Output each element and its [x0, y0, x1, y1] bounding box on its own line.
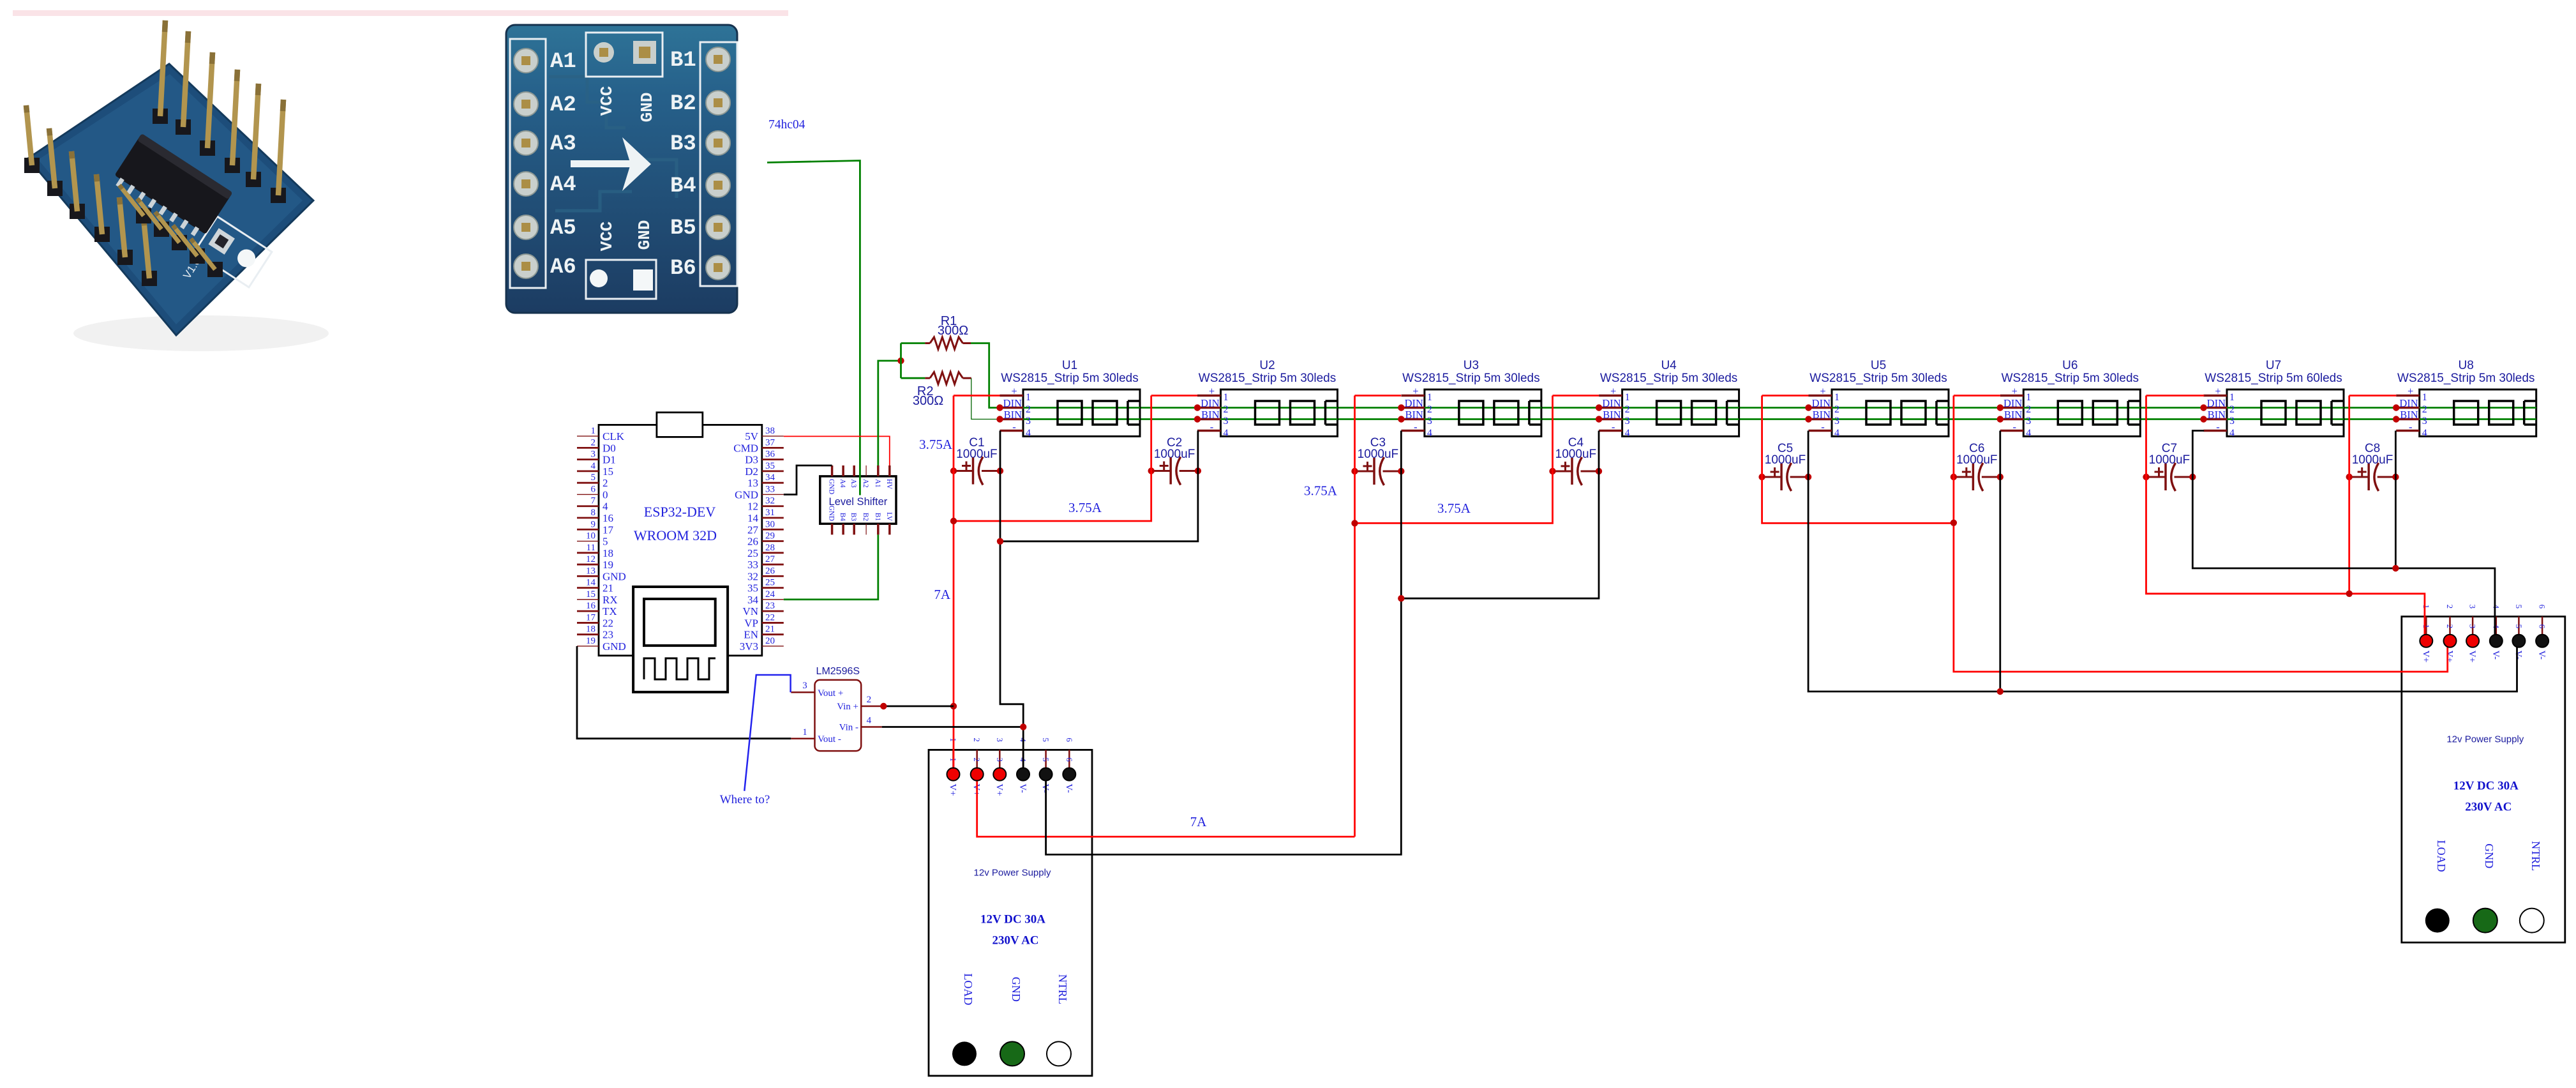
svg-text:32: 32: [765, 496, 775, 506]
svg-text:3: 3: [995, 737, 1005, 742]
svg-text:22: 22: [765, 612, 775, 623]
node U5 DIN: [1805, 404, 1811, 411]
U7 pin 4 stub: [2204, 430, 2228, 432]
terminal 1 stub: [952, 750, 954, 767]
level shifter top pin HV: [888, 465, 891, 476]
ESP32 left pin 16 (TX): [577, 610, 599, 612]
svg-text:WS2815_Strip 5m 30leds: WS2815_Strip 5m 30leds: [2002, 372, 2139, 385]
svg-text:4: 4: [2491, 605, 2501, 609]
svg-text:1000uF: 1000uF: [2149, 453, 2190, 467]
svg-text:23: 23: [603, 629, 613, 641]
svg-text:27: 27: [747, 524, 759, 536]
svg-text:36: 36: [765, 450, 775, 460]
svg-text:3: 3: [802, 681, 807, 691]
wire: +12V rail U1 (red, from PSU1 terminal1): [953, 396, 955, 768]
ESP32 right pin 36 (D3): [762, 458, 784, 460]
svg-text:DIN: DIN: [2399, 397, 2418, 409]
ESP32 right pin 34 (13): [762, 482, 784, 484]
ESP32 right pin 25 (35): [762, 587, 784, 589]
level shifter top pin A4: [842, 465, 844, 476]
svg-text:1000uF: 1000uF: [1555, 448, 1596, 461]
svg-text:4: 4: [2026, 428, 2031, 439]
svg-text:3: 3: [1625, 416, 1630, 427]
level shifter top pin GND: [831, 465, 834, 476]
ESP32 right pin 21 (EN): [762, 633, 784, 635]
svg-text:0: 0: [603, 488, 608, 501]
U6 pin 1 stub: [2000, 395, 2024, 397]
svg-text:U7: U7: [2266, 359, 2281, 372]
node U6 DIN: [1997, 404, 2003, 411]
svg-text:GND: GND: [2483, 843, 2496, 868]
svg-text:2: 2: [1224, 404, 1229, 415]
svg-text:2: 2: [2445, 605, 2455, 609]
wire: DIN bus (green): [1000, 407, 2536, 409]
svg-text:1: 1: [802, 727, 807, 737]
node C6+: [1951, 474, 1957, 480]
svg-text:13: 13: [747, 477, 758, 489]
svg-text:-: -: [2013, 421, 2017, 433]
node U5/U6 +12V: [1951, 520, 1957, 526]
terminal 5 stub: [2518, 617, 2520, 635]
ESP32 left pin 8 (16): [577, 517, 599, 519]
ESP32 left pin 13 (GND): [577, 575, 599, 577]
svg-text:1: 1: [591, 426, 596, 436]
svg-text:LM2596S: LM2596S: [816, 666, 860, 677]
U5 pin 1 stub: [1809, 395, 1832, 397]
svg-text:15: 15: [603, 465, 613, 478]
svg-text:38: 38: [765, 426, 775, 436]
node C2-: [1195, 467, 1201, 474]
level shifter bottom pin B1: [877, 524, 880, 534]
U7 pin 1 stub: [2204, 395, 2228, 397]
svg-text:V+: V+: [2445, 651, 2455, 663]
node U5 BIN: [1805, 416, 1811, 422]
svg-text:VCC: VCC: [597, 222, 617, 252]
svg-text:74hc04: 74hc04: [768, 118, 805, 132]
svg-text:6: 6: [591, 484, 596, 494]
ESP32 right pin 33 (GND): [762, 494, 784, 495]
U2 pin 3 stub: [1197, 418, 1221, 421]
ESP32 right pin 30 (27): [762, 529, 784, 531]
level shifter bottom pin B3: [853, 524, 855, 534]
svg-text:3: 3: [1427, 416, 1432, 427]
svg-text:VP: VP: [744, 617, 758, 629]
svg-text:A6: A6: [550, 255, 576, 280]
ESP32 left pin 15 (RX): [577, 599, 599, 600]
svg-text:16: 16: [603, 512, 613, 524]
U4 pin 3 stub: [1599, 418, 1622, 421]
svg-text:26: 26: [765, 566, 775, 576]
svg-text:BIN: BIN: [2400, 409, 2418, 421]
svg-text:30: 30: [765, 519, 775, 529]
capacitor C2 1000uF: [1148, 436, 1202, 485]
LM2596S pin 4 (Vin-): [861, 726, 882, 728]
svg-text:13: 13: [586, 566, 595, 576]
12v power supply PSU1: [929, 737, 1092, 1076]
svg-text:21: 21: [603, 582, 613, 594]
svg-text:B2: B2: [670, 92, 696, 116]
U8 pin 2 stub: [2396, 407, 2420, 409]
node U1 DIN: [996, 404, 1003, 411]
svg-text:LOAD: LOAD: [2435, 840, 2448, 872]
ESP32 left pin 5 (2): [577, 482, 599, 484]
svg-text:U1: U1: [1062, 359, 1077, 372]
U3 pin 4 stub: [1401, 430, 1425, 432]
terminal 1 stub: [2425, 617, 2427, 635]
svg-text:A2: A2: [862, 479, 869, 488]
svg-text:+: +: [1610, 385, 1616, 397]
terminal 6 stub: [1068, 750, 1070, 767]
ESP32 left pin 12 (19): [577, 564, 599, 566]
svg-text:2: 2: [603, 477, 608, 489]
svg-text:4: 4: [1427, 428, 1432, 439]
svg-text:DIN: DIN: [1602, 397, 1621, 409]
LED strip U5 (WS2815_Strip 5m 30leds): [1805, 359, 1949, 439]
node U2 DIN: [1194, 404, 1201, 411]
svg-text:5: 5: [1041, 757, 1051, 762]
capacitor C8 1000uF: [2346, 442, 2399, 491]
svg-text:ESP32-DEV: ESP32-DEV: [644, 504, 716, 520]
wire: U8 pin4 return (black): [2395, 431, 2397, 569]
wire: U1 pin4 return to PSU1 t4 (black): [1000, 431, 1023, 768]
ESP32 left pin 18 (23): [577, 633, 599, 635]
svg-text:CMD: CMD: [733, 442, 758, 454]
resistor R2 300ohm: [901, 372, 971, 408]
svg-text:Vin -: Vin -: [839, 723, 858, 733]
svg-text:5: 5: [1041, 737, 1051, 742]
node U3 BIN: [1398, 416, 1404, 422]
wire: U6 pin4 return (black): [1999, 431, 2001, 692]
svg-text:HV: HV: [885, 479, 893, 489]
svg-text:3.75A: 3.75A: [1437, 501, 1471, 516]
svg-text:6: 6: [1065, 737, 1074, 742]
svg-text:12V DC 30A: 12V DC 30A: [980, 912, 1045, 926]
svg-text:6: 6: [1065, 757, 1074, 762]
node U4 BIN: [1596, 416, 1602, 422]
svg-text:U8: U8: [2459, 359, 2474, 372]
svg-text:7A: 7A: [1190, 814, 1208, 829]
U5 pin 4 stub: [1809, 430, 1832, 432]
wire: ESP32 GND pin33 to level shifter GND (black): [784, 465, 832, 495]
node C1+: [950, 467, 957, 474]
svg-text:5: 5: [591, 472, 596, 483]
wire: branch to U2 pin1 (red): [954, 396, 1151, 522]
svg-text:DIN: DIN: [1201, 397, 1219, 409]
svg-text:V+: V+: [994, 783, 1004, 796]
ESP32 right pin 27 (33): [762, 564, 784, 566]
U7 pin 2 stub: [2204, 407, 2228, 409]
svg-text:8: 8: [591, 508, 596, 518]
svg-text:27: 27: [765, 554, 775, 564]
photo background pink band: [13, 10, 788, 16]
node U3 DIN: [1398, 404, 1404, 411]
svg-text:Vout -: Vout -: [818, 734, 841, 744]
svg-text:2: 2: [972, 757, 982, 762]
svg-text:CLK: CLK: [603, 430, 625, 442]
svg-text:12: 12: [747, 501, 758, 513]
ESP32 left pin 7 (4): [577, 505, 599, 507]
node U3/U4 +12V: [1351, 520, 1358, 526]
svg-text:GND: GND: [603, 570, 626, 582]
svg-text:RX: RX: [603, 594, 618, 606]
svg-text:9: 9: [591, 519, 596, 529]
U1 pin 3 stub: [1000, 418, 1024, 421]
svg-text:7: 7: [591, 496, 596, 506]
svg-text:17: 17: [603, 524, 614, 536]
LED strip U7 (WS2815_Strip 5m 60leds): [2200, 359, 2344, 439]
capacitor C4 1000uF: [1549, 436, 1602, 485]
svg-text:14: 14: [586, 578, 596, 588]
svg-text:A1: A1: [874, 479, 881, 488]
svg-text:Vin +: Vin +: [837, 702, 858, 712]
svg-text:2: 2: [1834, 404, 1839, 415]
svg-text:16: 16: [586, 601, 596, 611]
wire: Vin- to PSU1 t4 branch (black): [882, 726, 1024, 728]
level shifter top pin A1: [877, 465, 880, 476]
svg-text:DIN: DIN: [2207, 397, 2226, 409]
svg-text:A3: A3: [850, 479, 857, 488]
node C3-: [1398, 468, 1404, 474]
node U8 DIN: [2393, 404, 2399, 411]
terminal 4 stub: [2496, 617, 2497, 635]
wire: 74hc04 output to level shifter (green): [767, 161, 860, 495]
svg-text:D1: D1: [603, 454, 616, 466]
svg-text:+: +: [1209, 385, 1215, 397]
wire: U3 pin4 return to PSU1 t5 (black): [1046, 431, 1402, 855]
terminal 2 stub: [2449, 617, 2451, 635]
svg-text:EN: EN: [744, 629, 758, 641]
ESP32 left pin 2 (D0): [577, 447, 599, 449]
svg-text:26: 26: [747, 536, 758, 548]
svg-text:34: 34: [747, 594, 759, 606]
svg-text:23: 23: [765, 601, 775, 611]
wire: U2 pin4 return (black): [1000, 431, 1198, 541]
svg-text:3.75A: 3.75A: [1304, 483, 1338, 499]
svg-text:3: 3: [1834, 416, 1839, 427]
capacitor C5 1000uF: [1758, 442, 1811, 491]
wire: U4 pin4 return (black): [1401, 431, 1599, 599]
LM2596S pin 1 (Vout-): [791, 737, 814, 739]
svg-text:2: 2: [1625, 404, 1630, 415]
LED strip U1 (WS2815_Strip 5m 30leds): [996, 359, 1140, 439]
svg-text:2: 2: [2445, 624, 2455, 629]
LED strip U6 (WS2815_Strip 5m 30leds): [1997, 359, 2141, 439]
U8 pin 3 stub: [2396, 418, 2420, 421]
svg-text:12: 12: [586, 554, 595, 564]
LED strip U8 (WS2815_Strip 5m 30leds): [2393, 359, 2536, 439]
photo1 left pin header row: [24, 158, 40, 173]
ESP32 right pin 31 (14): [762, 517, 784, 519]
svg-text:U6: U6: [2062, 359, 2078, 372]
U1 pin 4 stub: [1000, 430, 1024, 432]
svg-text:3.75A: 3.75A: [1068, 500, 1102, 515]
ESP32 right pin 22 (VP): [762, 622, 784, 624]
svg-text:-: -: [1210, 421, 1214, 433]
node Vin- junction: [1020, 723, 1026, 730]
ESP32 left pin 19 (GND): [577, 646, 599, 647]
svg-text:1: 1: [1224, 392, 1229, 403]
svg-text:3: 3: [2468, 605, 2478, 609]
level shifter box: [820, 476, 896, 524]
svg-text:D2: D2: [745, 465, 758, 478]
svg-text:1: 1: [2422, 392, 2427, 403]
svg-text:DIN: DIN: [1405, 397, 1423, 409]
ESP32 right pin 35 (D2): [762, 471, 784, 472]
svg-text:22: 22: [603, 617, 613, 629]
svg-text:19: 19: [603, 559, 613, 571]
svg-text:D0: D0: [603, 442, 616, 454]
wire: R1 to U1 DIN (green): [971, 344, 1000, 408]
node C3+: [1351, 468, 1358, 474]
level shifter bottom pin GND: [831, 524, 834, 534]
ESP32 left pin 11 (18): [577, 552, 599, 554]
U3 pin 1 stub: [1401, 395, 1425, 397]
svg-text:18: 18: [586, 624, 595, 635]
svg-text:3: 3: [995, 757, 1005, 762]
svg-text:A5: A5: [550, 216, 576, 241]
svg-text:4: 4: [1224, 428, 1229, 439]
ESP32 left pin 6 (0): [577, 494, 599, 495]
svg-text:4: 4: [867, 715, 872, 725]
svg-text:1: 1: [2026, 392, 2031, 403]
wire: U5 +12V rail (red): [1762, 396, 1954, 524]
LM2596S buck converter: [791, 666, 881, 751]
node U7 DIN: [2200, 404, 2206, 411]
svg-text:4: 4: [1625, 428, 1630, 439]
node U1/U2 +12V: [950, 518, 957, 524]
node C7-: [2189, 474, 2196, 480]
svg-text:U2: U2: [1259, 359, 1275, 372]
wire: level shifter A1 up to R1/R2 junction (green): [878, 361, 901, 465]
ESP32 left pin 4 (15): [577, 471, 599, 472]
node C5-: [1805, 474, 1811, 480]
node C7+: [2143, 474, 2149, 480]
ESP32 left pin 1 (CLK): [577, 435, 599, 437]
svg-text:DIN: DIN: [1812, 397, 1831, 409]
U6 pin 4 stub: [2000, 430, 2024, 432]
svg-text:24: 24: [765, 589, 775, 600]
svg-text:WS2815_Strip 5m 30leds: WS2815_Strip 5m 30leds: [2397, 372, 2535, 385]
svg-text:+: +: [2012, 385, 2018, 397]
U5 pin 3 stub: [1809, 418, 1832, 421]
capacitor C1 1000uF: [950, 436, 1003, 485]
svg-text:3V3: 3V3: [740, 640, 758, 653]
svg-text:25: 25: [747, 547, 758, 559]
svg-text:-: -: [1012, 421, 1016, 433]
svg-text:3: 3: [591, 450, 596, 460]
svg-text:BIN: BIN: [2004, 409, 2023, 421]
ESP32 left pin 14 (21): [577, 587, 599, 589]
node C6-: [1997, 474, 2003, 480]
photo: angled level shifter PCB module: [24, 20, 329, 351]
svg-text:4: 4: [2491, 624, 2501, 629]
svg-text:18: 18: [603, 547, 613, 559]
node C8+: [2346, 474, 2353, 480]
level shifter bottom pin B2: [865, 524, 867, 534]
node U7 BIN: [2200, 416, 2206, 422]
svg-text:A4: A4: [550, 173, 576, 197]
svg-text:GND: GND: [828, 506, 835, 521]
photo1 top-right pin header row: [153, 109, 168, 124]
svg-text:VN: VN: [742, 605, 758, 617]
svg-text:17: 17: [586, 612, 596, 623]
svg-text:12v Power Supply: 12v Power Supply: [974, 867, 1051, 878]
svg-text:U5: U5: [1871, 359, 1886, 372]
svg-text:2: 2: [1026, 404, 1031, 415]
svg-text:2: 2: [2026, 404, 2031, 415]
U5 pin 2 stub: [1809, 407, 1832, 409]
svg-text:6: 6: [2538, 624, 2547, 629]
node U7/U8 +12V: [2346, 591, 2353, 597]
svg-text:300Ω: 300Ω: [913, 394, 943, 408]
capacitor C7 1000uF: [2143, 442, 2196, 491]
ESP32 meander antenna: [644, 658, 715, 679]
level shifter bottom pin B4: [842, 524, 844, 534]
svg-text:-: -: [1414, 421, 1418, 433]
terminal 5 stub: [1045, 750, 1047, 767]
node U7/U8 GND: [2392, 565, 2399, 571]
U2 pin 1 stub: [1197, 395, 1221, 397]
node C1-: [997, 467, 1003, 474]
svg-text:35: 35: [747, 582, 758, 594]
svg-text:2: 2: [1427, 404, 1432, 415]
wire +12V rail U3 (red): [1354, 396, 1356, 837]
wire: U7 +12V rail to PSU2 t1 (red): [2146, 396, 2425, 640]
svg-text:V-: V-: [1017, 783, 1028, 792]
svg-text:4: 4: [603, 501, 608, 513]
ESP32 right pin 29 (26): [762, 540, 784, 542]
svg-text:2: 2: [2422, 404, 2427, 415]
terminal 2 stub: [976, 750, 978, 767]
ESP32 right pin 24 (34): [762, 599, 784, 600]
wire: U5 pin4 return to PSU2 t5 (black): [1808, 431, 2517, 692]
U3 pin 2 stub: [1401, 407, 1425, 409]
svg-text:3.75A: 3.75A: [919, 437, 953, 452]
terminal 3 stub: [999, 750, 1001, 767]
svg-text:WS2815_Strip 5m 30leds: WS2815_Strip 5m 30leds: [1199, 372, 1336, 385]
svg-text:33: 33: [765, 484, 775, 494]
svg-text:4: 4: [2229, 428, 2235, 439]
node Vin+ stub: [880, 703, 887, 709]
svg-text:12V DC 30A: 12V DC 30A: [2453, 780, 2519, 793]
ESP32 left pin 10 (5): [577, 541, 599, 542]
svg-text:BIN: BIN: [1813, 409, 1831, 421]
ESP32 right pin 37 (CMD): [762, 447, 784, 449]
wire: R2 to U1 BIN (thin dark green): [971, 378, 1000, 419]
wire: U8 +12V rail (red): [2348, 396, 2350, 594]
svg-text:B4: B4: [670, 174, 696, 199]
svg-text:GND: GND: [1010, 977, 1022, 1002]
node U5/U6 GND: [1997, 688, 2003, 695]
svg-text:15: 15: [586, 589, 595, 600]
ESP32-DEV module U? box: [599, 425, 762, 655]
svg-text:V-: V-: [2536, 651, 2547, 660]
ESP32 antenna block: [657, 412, 703, 437]
svg-text:V+: V+: [2420, 651, 2430, 663]
svg-text:VCC: VCC: [597, 86, 617, 116]
svg-text:11: 11: [587, 543, 595, 553]
svg-text:19: 19: [586, 636, 595, 646]
svg-text:1000uF: 1000uF: [1154, 448, 1195, 461]
svg-text:31: 31: [765, 508, 775, 518]
svg-text:WS2815_Strip 5m 60leds: WS2815_Strip 5m 60leds: [2205, 372, 2342, 385]
svg-text:1: 1: [1026, 392, 1031, 403]
ESP32 right pin 23 (VN): [762, 610, 784, 612]
capacitor C6 1000uF: [1951, 442, 2003, 491]
wire: ESP32 pin24(34) to level shifter B1 (green): [784, 534, 878, 600]
node: R1/R2 input junction: [897, 358, 904, 364]
svg-text:B4: B4: [839, 513, 846, 521]
